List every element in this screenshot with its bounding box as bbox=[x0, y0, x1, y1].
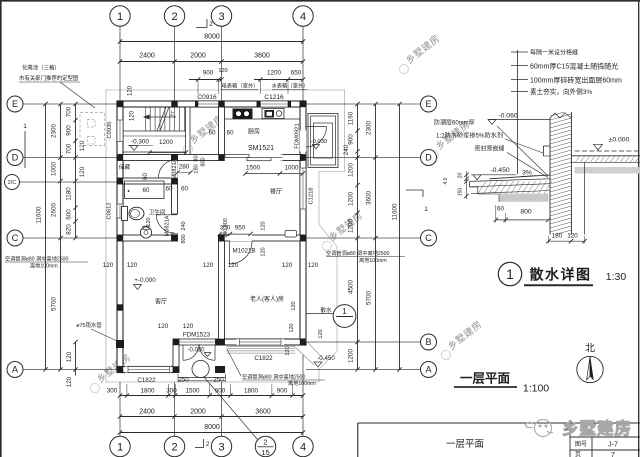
svg-text:8000: 8000 bbox=[204, 424, 220, 431]
detail apron top bbox=[489, 175, 550, 179]
svg-text:700: 700 bbox=[66, 143, 73, 154]
terrace hatch bbox=[227, 346, 296, 348]
svg-text:7: 7 bbox=[611, 452, 615, 457]
svg-text:4: 4 bbox=[300, 441, 306, 453]
svg-text:空调管洞ø80 洞中离地2500: 空调管洞ø80 洞中离地2500 bbox=[5, 255, 69, 263]
svg-text:C1822: C1822 bbox=[137, 377, 156, 384]
grid line row 2/C left bbox=[19, 181, 117, 183]
detail wall inner line bbox=[584, 162, 586, 234]
grid bubble E left bbox=[7, 96, 23, 112]
svg-text:60: 60 bbox=[497, 206, 505, 213]
svg-text:120: 120 bbox=[218, 68, 227, 74]
svg-text:每隔一米设分格缝: 每隔一米设分格缝 bbox=[530, 49, 578, 57]
svg-text:120: 120 bbox=[103, 262, 114, 269]
svg-text:240: 240 bbox=[343, 144, 350, 155]
grid bubble D left bbox=[7, 150, 23, 166]
section mark 1 right bbox=[406, 189, 423, 191]
sheet border right bbox=[638, 0, 640, 457]
svg-text:2400: 2400 bbox=[139, 53, 155, 60]
svg-text:120: 120 bbox=[127, 262, 138, 269]
svg-text:C0612: C0612 bbox=[107, 202, 113, 219]
window C0935 bbox=[117, 120, 123, 142]
sheet border left bbox=[0, 0, 2, 457]
left chain line outer bbox=[45, 104, 47, 370]
detail apron base bbox=[470, 184, 550, 187]
svg-text:11600: 11600 bbox=[36, 206, 43, 224]
svg-text:1500: 1500 bbox=[246, 165, 261, 172]
door opening M0821A-2 bbox=[171, 215, 177, 233]
svg-text:2000: 2000 bbox=[190, 409, 206, 416]
svg-text:FDM1523: FDM1523 bbox=[183, 332, 211, 339]
bath bench bbox=[125, 181, 165, 199]
grid line col2 bottom bbox=[174, 382, 176, 436]
svg-text:市有关部门推荐的定型图: 市有关部门推荐的定型图 bbox=[19, 74, 78, 82]
svg-text:电表箱（室外）: 电表箱（室外） bbox=[221, 82, 258, 90]
detail floor dots bbox=[575, 167, 640, 174]
svg-text:1:30: 1:30 bbox=[606, 271, 627, 283]
svg-text:上: 上 bbox=[169, 110, 175, 118]
detail leader b bbox=[505, 139, 543, 153]
svg-text:120: 120 bbox=[203, 262, 214, 269]
svg-text:散水: 散水 bbox=[320, 306, 332, 314]
svg-text:1: 1 bbox=[424, 206, 428, 213]
svg-text:1: 1 bbox=[117, 11, 123, 23]
door opening M1021B bbox=[230, 235, 253, 241]
svg-text:120: 120 bbox=[183, 323, 194, 330]
svg-text:120: 120 bbox=[66, 376, 73, 387]
svg-text:1200: 1200 bbox=[267, 70, 282, 77]
svg-text:±0.000: ±0.000 bbox=[609, 137, 630, 144]
grid bubble 1 top bbox=[110, 6, 130, 26]
watermark 5 bbox=[85, 351, 135, 394]
svg-text:900: 900 bbox=[66, 125, 73, 136]
svg-text:散水详图: 散水详图 bbox=[530, 267, 592, 283]
svg-text:1000: 1000 bbox=[51, 162, 58, 177]
svg-text:-0.450: -0.450 bbox=[490, 167, 509, 174]
svg-text:2: 2 bbox=[171, 11, 177, 23]
svg-text:250: 250 bbox=[213, 377, 224, 384]
svg-text:B: B bbox=[425, 337, 431, 347]
door M0821A-2 bbox=[156, 214, 177, 216]
grid bubble B right bbox=[421, 334, 437, 350]
svg-text:800: 800 bbox=[520, 209, 532, 216]
svg-text:300: 300 bbox=[220, 225, 231, 232]
svg-text:120: 120 bbox=[128, 85, 134, 96]
svg-text:C1216: C1216 bbox=[264, 94, 284, 101]
svg-text:4.0: 4.0 bbox=[443, 177, 449, 184]
sanshui leader bbox=[306, 313, 333, 315]
detail wall lines bbox=[549, 118, 551, 235]
grid bubble A right bbox=[421, 362, 437, 378]
svg-text:2300: 2300 bbox=[51, 124, 58, 139]
svg-text:2: 2 bbox=[209, 21, 213, 28]
svg-text:A: A bbox=[425, 365, 431, 375]
detail bubble 2/15 bottom bbox=[255, 436, 275, 456]
grid bubble 3 bottom bbox=[211, 436, 231, 456]
svg-text:650: 650 bbox=[291, 70, 302, 77]
section flag 2 bottom bbox=[195, 447, 204, 449]
watermark 3 bbox=[424, 118, 474, 161]
grid bubble 4 top bbox=[293, 6, 313, 26]
grid bubble 2 top bbox=[164, 6, 184, 26]
grid bubble 4 bottom bbox=[293, 436, 313, 456]
svg-text:1200: 1200 bbox=[159, 139, 174, 146]
svg-text:820: 820 bbox=[66, 224, 73, 235]
svg-text:3600: 3600 bbox=[255, 409, 271, 416]
svg-text:2600: 2600 bbox=[51, 203, 58, 218]
svg-text:D: D bbox=[12, 153, 19, 163]
svg-text:100mm厚碎砖宽出面层60mm: 100mm厚碎砖宽出面层60mm bbox=[530, 76, 622, 85]
grid bubble A left bbox=[7, 362, 23, 378]
svg-text:120: 120 bbox=[66, 351, 73, 362]
svg-text:一层平面: 一层平面 bbox=[446, 439, 484, 450]
svg-text:11600: 11600 bbox=[392, 203, 399, 221]
svg-text:120: 120 bbox=[282, 262, 293, 269]
svg-text:3: 3 bbox=[218, 441, 224, 453]
door opening M0821A-1 bbox=[171, 162, 177, 180]
svg-text:水表箱（室外）: 水表箱（室外） bbox=[271, 82, 308, 90]
svg-text:离地100mm: 离地100mm bbox=[30, 262, 58, 270]
right chain inner bbox=[357, 104, 359, 370]
grid line row A left bbox=[23, 369, 117, 371]
grid bubble D right bbox=[421, 150, 437, 166]
svg-text:900: 900 bbox=[203, 70, 214, 77]
wall col 2 bbox=[172, 155, 178, 185]
wall row C bath bbox=[117, 235, 178, 241]
grid line col 2 bbox=[174, 27, 176, 102]
svg-text:E: E bbox=[12, 99, 18, 109]
plan title underline bbox=[454, 386, 517, 388]
niche on wall C bbox=[285, 231, 297, 238]
detail title bubble bbox=[498, 262, 521, 285]
svg-text:60: 60 bbox=[181, 186, 189, 193]
svg-text:乡墅建房: 乡墅建房 bbox=[562, 418, 632, 438]
grid line col3 bottom bbox=[221, 382, 223, 436]
door M0821A-1 bbox=[159, 160, 177, 178]
svg-text:800: 800 bbox=[181, 234, 187, 243]
bottom chain1 bbox=[120, 395, 303, 397]
svg-text:北: 北 bbox=[585, 343, 595, 355]
svg-text:60: 60 bbox=[226, 130, 234, 137]
kitchen counter bbox=[225, 118, 301, 120]
svg-text:300: 300 bbox=[107, 388, 118, 395]
grid line row E left bbox=[23, 103, 117, 105]
floor drain bbox=[140, 227, 151, 238]
svg-text:D: D bbox=[425, 153, 432, 163]
detail floor hatch bbox=[575, 156, 580, 163]
svg-text:防潮层60mm厚: 防潮层60mm厚 bbox=[434, 119, 475, 127]
svg-text:1200: 1200 bbox=[348, 219, 355, 234]
svg-text:15: 15 bbox=[261, 448, 269, 457]
door M1021B bbox=[229, 241, 231, 265]
stairs break line bbox=[157, 107, 166, 131]
detail wall ledge bbox=[542, 146, 544, 156]
jamb blocks bbox=[173, 366, 179, 372]
svg-text:180: 180 bbox=[552, 233, 563, 240]
svg-text:250: 250 bbox=[178, 377, 189, 384]
svg-text:300: 300 bbox=[166, 388, 177, 395]
section flag 2 top bbox=[196, 27, 207, 29]
svg-text:120: 120 bbox=[261, 247, 267, 256]
right chain outer bbox=[399, 104, 401, 370]
leader to 2/15 bbox=[204, 377, 258, 440]
svg-text:A: A bbox=[12, 365, 18, 375]
svg-text:C1822: C1822 bbox=[254, 355, 273, 362]
watermark 6 bbox=[436, 318, 486, 361]
toilet bbox=[122, 207, 128, 221]
stairs landing bbox=[123, 130, 186, 132]
grid bubble 1 bottom bbox=[110, 436, 130, 456]
svg-text:240: 240 bbox=[181, 221, 187, 230]
svg-text:280: 280 bbox=[179, 164, 190, 171]
svg-text:1200: 1200 bbox=[348, 349, 355, 364]
window C1216 bbox=[258, 101, 290, 107]
svg-text:1:100: 1:100 bbox=[523, 383, 549, 395]
window C0916 bbox=[195, 101, 219, 107]
svg-text:1800: 1800 bbox=[140, 388, 155, 395]
logo icon bbox=[525, 420, 553, 437]
svg-text:60: 60 bbox=[208, 130, 216, 137]
svg-text:2: 2 bbox=[263, 438, 267, 447]
svg-text:120: 120 bbox=[318, 329, 324, 338]
grid line col 3 bbox=[221, 27, 223, 102]
svg-text:J-7: J-7 bbox=[608, 442, 618, 449]
leader septic bbox=[60, 82, 95, 108]
svg-text:C: C bbox=[12, 233, 19, 243]
svg-text:1: 1 bbox=[342, 307, 347, 316]
wall row C bed bbox=[219, 235, 307, 241]
svg-text:60mm厚C15混凝土随捣随光: 60mm厚C15混凝土随捣随光 bbox=[530, 62, 618, 71]
svg-text:700: 700 bbox=[66, 106, 73, 117]
svg-text:1500: 1500 bbox=[185, 388, 200, 395]
svg-text:FDM0921: FDM0921 bbox=[295, 123, 301, 148]
septic tank dashed box bbox=[80, 113, 105, 146]
svg-text:120: 120 bbox=[146, 217, 152, 226]
svg-text:1200: 1200 bbox=[348, 163, 355, 178]
detail rubble bbox=[499, 194, 548, 202]
sanshui bubble bbox=[333, 305, 356, 328]
door FDM1523 leaf a bbox=[182, 345, 184, 361]
svg-text:60: 60 bbox=[165, 186, 173, 193]
svg-text:5700: 5700 bbox=[51, 297, 58, 312]
svg-text:图号: 图号 bbox=[575, 441, 587, 448]
north circle bbox=[577, 356, 603, 382]
svg-text:1: 1 bbox=[506, 267, 514, 282]
svg-text:1:2防水砂浆掺5%防水剂: 1:2防水砂浆掺5%防水剂 bbox=[436, 132, 503, 140]
detail wall hatch bbox=[550, 112, 571, 235]
wall right col 4 bbox=[300, 101, 306, 345]
left chain bottom bbox=[75, 342, 77, 376]
grid line row B right bbox=[306, 341, 421, 343]
grid line col 4 bbox=[302, 27, 304, 102]
detail leader c bbox=[507, 153, 548, 178]
grid bubble 3 top bbox=[211, 6, 231, 26]
wall row 2C bbox=[117, 178, 178, 184]
window C1822 right bbox=[237, 339, 285, 345]
grid bubble 2/C left bbox=[5, 175, 20, 190]
svg-text:60: 60 bbox=[142, 173, 149, 181]
svg-text:+-0.000: +-0.000 bbox=[134, 277, 156, 284]
svg-text:120: 120 bbox=[228, 262, 239, 269]
svg-text:120: 120 bbox=[158, 323, 169, 330]
detail right leader line bbox=[517, 50, 519, 174]
sheet border top bbox=[0, 0, 640, 2]
svg-text:900: 900 bbox=[277, 388, 288, 395]
grid line row E right bbox=[306, 103, 421, 105]
grid bubble C right bbox=[421, 230, 437, 246]
svg-text:80: 80 bbox=[194, 155, 200, 161]
svg-text:3%: 3% bbox=[522, 170, 532, 177]
svg-text:5700: 5700 bbox=[366, 291, 373, 306]
svg-text:600: 600 bbox=[66, 209, 73, 220]
svg-text:1180: 1180 bbox=[66, 187, 73, 201]
svg-text:1: 1 bbox=[117, 441, 123, 453]
window C1822 bottom bbox=[125, 367, 171, 373]
svg-text:950: 950 bbox=[235, 225, 246, 232]
svg-text:3: 3 bbox=[218, 11, 224, 23]
svg-text:1800: 1800 bbox=[244, 388, 259, 395]
svg-text:SM1521: SM1521 bbox=[248, 145, 274, 152]
left chain line inner bbox=[75, 104, 77, 238]
title block frame bbox=[358, 422, 640, 424]
svg-text:客厅: 客厅 bbox=[155, 298, 167, 306]
svg-text:储藏: 储藏 bbox=[119, 163, 131, 171]
detail apron concrete bbox=[478, 181, 486, 194]
svg-text:8000: 8000 bbox=[204, 34, 220, 41]
svg-text:素土夯实，向外侧3%: 素土夯实，向外侧3% bbox=[530, 87, 592, 96]
stairs up arrow bbox=[144, 116, 176, 118]
svg-text:900: 900 bbox=[348, 134, 355, 145]
svg-text:2/C: 2/C bbox=[8, 180, 16, 186]
apron outline bbox=[106, 90, 345, 382]
columns bbox=[117, 101, 123, 107]
svg-text:2400: 2400 bbox=[139, 409, 155, 416]
svg-text:120: 120 bbox=[289, 323, 295, 332]
svg-text:-0.450: -0.450 bbox=[317, 355, 335, 362]
grid line col 1 bbox=[119, 27, 121, 102]
stairs side wall bbox=[186, 107, 191, 155]
svg-text:空调管洞ø80 洞中离地2500: 空调管洞ø80 洞中离地2500 bbox=[326, 249, 390, 257]
svg-text:老人(客人)房: 老人(客人)房 bbox=[250, 295, 284, 303]
svg-text:3600: 3600 bbox=[254, 53, 270, 60]
svg-text:1160: 1160 bbox=[348, 111, 355, 125]
svg-text:180: 180 bbox=[194, 164, 200, 173]
svg-text:一层平面: 一层平面 bbox=[460, 372, 511, 386]
window C1218 bbox=[300, 168, 306, 209]
grid line col1 bottom bbox=[119, 382, 121, 436]
svg-text:M1021B: M1021B bbox=[232, 248, 255, 255]
svg-text:120: 120 bbox=[291, 301, 297, 310]
extension lines bottom dims bbox=[126, 384, 128, 396]
porch inner bbox=[311, 116, 336, 165]
svg-text:2000: 2000 bbox=[190, 53, 206, 60]
svg-text:C0916: C0916 bbox=[197, 94, 217, 101]
grid bubble E right bbox=[421, 96, 437, 112]
svg-text:120: 120 bbox=[130, 110, 136, 121]
door opening FDM0921 bbox=[300, 131, 306, 152]
north needle bbox=[587, 357, 590, 381]
svg-text:120: 120 bbox=[567, 233, 578, 240]
dim line C1216 bbox=[254, 79, 303, 81]
stairs bbox=[144, 107, 146, 131]
dim line C0916 bbox=[189, 79, 222, 81]
svg-text:3600: 3600 bbox=[366, 191, 373, 206]
svg-text:化粪池（三格）: 化粪池（三格） bbox=[22, 64, 60, 72]
wall top row E bbox=[117, 101, 306, 107]
grid bubble C left bbox=[7, 230, 23, 246]
right chain mid bbox=[375, 104, 377, 370]
svg-text:4: 4 bbox=[300, 11, 306, 23]
svg-text:离地100mm: 离地100mm bbox=[359, 256, 387, 264]
sliding door SM1521 bbox=[225, 154, 283, 160]
watermark 2 bbox=[394, 32, 444, 75]
svg-text:120: 120 bbox=[261, 221, 267, 230]
svg-text:密封膏嵌缝: 密封膏嵌缝 bbox=[475, 145, 505, 153]
svg-text:1: 1 bbox=[23, 123, 27, 130]
entry recess door sill bbox=[179, 339, 216, 345]
svg-text:60: 60 bbox=[142, 187, 150, 194]
detail title underline bbox=[524, 284, 593, 286]
entrance detail circle bbox=[192, 360, 209, 377]
svg-text:120: 120 bbox=[79, 166, 86, 177]
svg-text:800: 800 bbox=[201, 157, 207, 166]
svg-text:2: 2 bbox=[171, 441, 177, 453]
svg-text:ø75雨水管: ø75雨水管 bbox=[76, 321, 102, 329]
svg-text:E: E bbox=[425, 99, 431, 109]
grid line row A right bbox=[306, 369, 421, 371]
svg-text:-0.300: -0.300 bbox=[131, 139, 149, 146]
entry recess right wall piece bbox=[216, 339, 225, 345]
detail apron end bbox=[469, 181, 471, 187]
door FDM1523 leaf b bbox=[214, 345, 216, 361]
svg-text:C0935: C0935 bbox=[107, 121, 113, 138]
svg-text:2300: 2300 bbox=[366, 121, 373, 136]
door FDM0921 bbox=[306, 126, 327, 128]
wall left col 1 bbox=[117, 101, 123, 373]
grid line row D left bbox=[23, 157, 117, 159]
entry recess left stub bbox=[173, 339, 179, 373]
svg-text:M0821A: M0821A bbox=[165, 215, 171, 236]
stove bbox=[233, 109, 253, 120]
svg-text:2: 2 bbox=[206, 441, 210, 448]
grid line row C left bbox=[23, 237, 117, 239]
grid line row C right bbox=[306, 237, 421, 239]
detail dim line bottom bbox=[496, 219, 549, 221]
svg-text:-0.030: -0.030 bbox=[187, 348, 205, 354]
grid line row D right bbox=[306, 157, 421, 159]
svg-text:餐厅: 餐厅 bbox=[270, 188, 282, 196]
detail leader a bbox=[497, 126, 548, 176]
grid bubble 2 bottom bbox=[164, 436, 184, 456]
bottom chain2 bbox=[120, 416, 303, 418]
grid line col4 bottom bbox=[302, 355, 304, 436]
svg-text:C1218: C1218 bbox=[309, 187, 315, 204]
septic tank cell b bbox=[88, 137, 96, 145]
svg-text:页: 页 bbox=[575, 452, 581, 457]
svg-text:1200: 1200 bbox=[348, 192, 355, 207]
wall col 3 lower bbox=[219, 235, 225, 345]
sink bbox=[262, 109, 284, 119]
svg-text:C: C bbox=[425, 233, 432, 243]
porch outline bbox=[308, 114, 338, 168]
watermark 4 bbox=[317, 209, 367, 252]
entrance steps bbox=[178, 377, 226, 379]
wall bottom row A bbox=[117, 367, 176, 373]
wall col 3 upper bbox=[219, 107, 225, 155]
detail floor slab bbox=[571, 155, 640, 157]
svg-text:1000: 1000 bbox=[284, 165, 299, 172]
rain pipe bbox=[116, 340, 124, 348]
